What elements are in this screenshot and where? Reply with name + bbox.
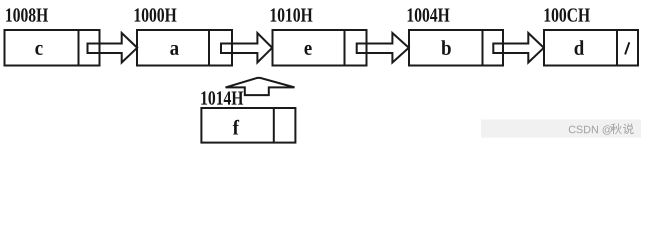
node box d <box>544 30 638 66</box>
data e <box>304 45 311 55</box>
node box f <box>201 108 295 143</box>
node box b <box>409 30 503 66</box>
null pointer slash <box>625 42 629 54</box>
data b <box>441 40 451 55</box>
label 1010H <box>271 8 313 21</box>
data f <box>233 120 239 135</box>
label 1004H <box>408 8 450 21</box>
pointer arrow c to a <box>88 33 138 63</box>
data d <box>575 40 585 55</box>
label 1014H <box>201 91 243 105</box>
watermark text CSDN @qiushuo <box>569 123 634 134</box>
insert arrow up <box>226 78 295 95</box>
node box c <box>5 30 100 66</box>
node box e <box>273 30 367 66</box>
pointer arrow b to d <box>493 33 544 63</box>
label 1008H <box>6 8 48 21</box>
node box a <box>137 30 232 66</box>
pointer arrow e to b <box>357 33 409 63</box>
label 1000H <box>135 8 177 21</box>
watermark band <box>481 120 641 138</box>
data a <box>170 45 179 55</box>
pointer arrow a to e <box>221 33 272 63</box>
data c <box>35 45 42 55</box>
label 100CH <box>545 8 590 21</box>
